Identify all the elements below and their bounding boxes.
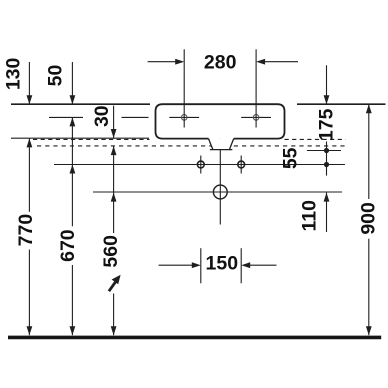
fixing hole right: [240, 156, 242, 174]
wire solid underside extension line: [11, 137, 149, 139]
floor line: [8, 336, 381, 340]
arrowhead 130 at rim: [27, 95, 33, 104]
wire 150 extension right: [240, 248, 242, 283]
svg-text:175: 175: [316, 108, 338, 141]
svg-text:770: 770: [15, 214, 37, 247]
wire dashed underside line left: [33, 138, 150, 140]
wire 670 line lower: [71, 265, 73, 335]
arrowhead 900 at floor: [366, 326, 372, 335]
svg-text:55: 55: [280, 147, 302, 169]
arrowhead 150 right: [241, 262, 250, 268]
arrowhead 900 at rim: [366, 104, 372, 113]
dot 55 upper: [324, 148, 329, 153]
wire 175 arrow tail: [326, 65, 328, 104]
wire 50 arrow tail: [71, 62, 73, 104]
wire 900 line lower: [368, 239, 370, 336]
svg-text:110: 110: [299, 200, 321, 232]
svg-text:150: 150: [206, 252, 239, 274]
arrowhead 50 at tap line: [70, 117, 76, 126]
wire 770 line lower: [28, 250, 30, 336]
wire 280 extension line right: [255, 49, 257, 127]
arrowhead 770 at underside: [27, 138, 33, 147]
wire 280 extension line left: [183, 49, 185, 127]
adjustability NE arrow: [109, 282, 116, 291]
svg-text:900: 900: [357, 202, 379, 235]
wire vertical centreline: [219, 129, 221, 224]
arrowhead 150 left: [192, 262, 201, 268]
washbasin body outline: [156, 104, 285, 138]
arrowhead 560 at floor: [111, 326, 117, 335]
svg-text:280: 280: [204, 52, 237, 74]
wire 175-level short line: [307, 150, 341, 152]
wire 900 line upper: [368, 104, 370, 199]
fixing hole left: [200, 156, 202, 174]
wire rim-level line right segment: [297, 103, 386, 105]
tap hole mark left: [169, 116, 199, 118]
svg-text:560: 560: [100, 235, 122, 268]
drain trapezoid: [209, 139, 234, 150]
wire fixing-hole level line: [54, 164, 345, 166]
wire dashed lower bracket line: [37, 145, 347, 147]
wire 30 arrow tail: [113, 106, 115, 138]
wire siphon level line: [93, 191, 342, 193]
svg-text:30: 30: [91, 105, 113, 127]
wire 150 dim line left: [159, 264, 194, 266]
arrowhead 670 at floor: [70, 326, 76, 335]
wire tap-hole centreline left b: [122, 116, 149, 118]
wire 560 line upper: [113, 146, 115, 233]
arrowhead 50 at rim: [70, 95, 76, 104]
arrowhead 770 at floor: [27, 326, 33, 335]
siphon outlet circle: [213, 185, 227, 199]
wire 150 dim line right: [249, 264, 277, 266]
svg-text:130: 130: [2, 57, 24, 90]
wire 670 line upper: [71, 117, 73, 226]
wire 150 extension left: [200, 248, 202, 283]
wire 280 dim line left: [148, 61, 177, 63]
arrowhead 280 right: [256, 59, 265, 65]
wire 55 dim line: [326, 142, 328, 176]
wire 110 arrow tail: [326, 193, 328, 232]
arrowhead 670 at fixing line: [70, 165, 76, 174]
arrowhead 280 left: [175, 59, 184, 65]
wire dashed underside line right: [285, 138, 346, 140]
wire tap-hole centreline left a: [49, 116, 83, 118]
svg-text:50: 50: [45, 65, 67, 87]
arrowhead 560 at siphon line: [111, 193, 117, 202]
wire 560 line lower: [113, 294, 115, 336]
arrowhead 110 at siphon line: [324, 193, 330, 202]
dot 55 lower: [324, 162, 329, 167]
svg-text:670: 670: [57, 229, 79, 262]
arrowhead 175 at rim: [324, 95, 330, 104]
wire 770 line upper: [28, 138, 30, 211]
wire 280 dim line right: [264, 61, 298, 63]
wire 130 arrow tail: [28, 62, 30, 104]
wire rim-level line left segment: [11, 103, 150, 105]
arrowhead 30 at dashed line: [111, 146, 117, 155]
arrowhead 30 at underside: [111, 129, 117, 138]
tap hole mark right: [241, 116, 271, 118]
